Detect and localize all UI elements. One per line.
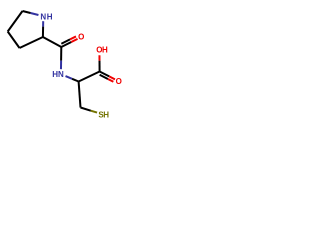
wire bond CA-C7: [79, 72, 100, 82]
node N2 amide HN label: [52, 70, 64, 79]
node N1 ring NH label: [40, 13, 52, 22]
wire bond C3-C2: [20, 37, 43, 48]
node S thiol SH label: [98, 110, 109, 119]
svg-text:N: N: [40, 13, 46, 22]
wire bond C6-N2 (amide C-N): [60, 47, 62, 69]
wire double bond C7=O8 (acid C=O): [100, 72, 115, 82]
wire bond C4-C3: [8, 32, 20, 49]
wire bond C5-C4: [8, 11, 23, 32]
svg-text:H: H: [103, 110, 109, 119]
wire bond N1-C5 (ring N to C5): [23, 11, 39, 15]
wire bond N1-C2 (ring N to C2): [42, 21, 44, 37]
node O8 acid O label: [116, 77, 122, 86]
svg-text:O: O: [116, 77, 122, 86]
svg-text:O: O: [78, 32, 84, 41]
svg-text:H: H: [47, 13, 53, 22]
node O7 hydroxyl OH label: [96, 46, 108, 55]
wire bond C2-C6: [43, 37, 61, 47]
wire bond C7-O7 (C-OH): [98, 55, 100, 71]
wire bond N2-CA: [66, 76, 79, 81]
wire bond CA-CB: [79, 82, 81, 108]
svg-text:N: N: [58, 70, 64, 79]
wire bond CB-S: [81, 108, 98, 113]
svg-text:H: H: [102, 46, 108, 55]
wire double bond C6=O6 (amide C=O): [61, 36, 77, 47]
node O6 amide O label: [78, 32, 84, 41]
